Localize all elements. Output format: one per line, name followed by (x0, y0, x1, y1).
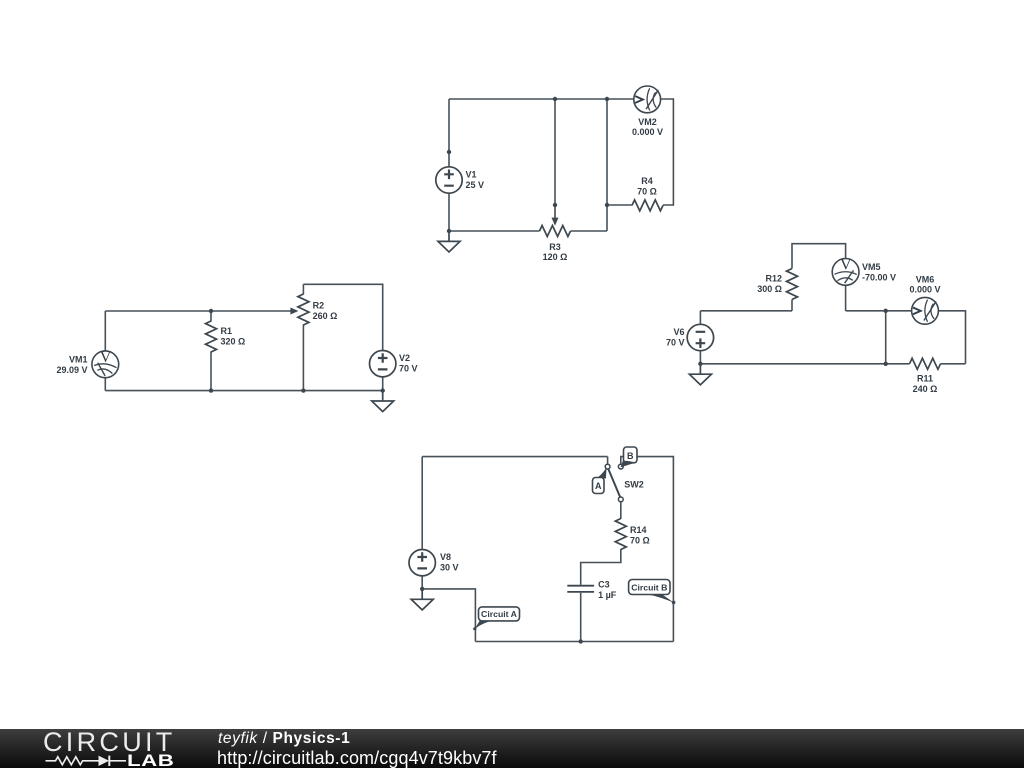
wire R14 to C3 (581, 549, 621, 585)
wire V6 top (699, 311, 701, 325)
resistor R1 (206, 321, 217, 352)
wire R1 top lead (210, 311, 212, 322)
svg-text:R1: R1 (221, 326, 233, 336)
junction R4 node (605, 203, 609, 207)
svg-text:320 Ω: 320 Ω (221, 336, 246, 346)
ground GND2 (372, 391, 394, 412)
svg-text:V2: V2 (399, 353, 410, 363)
svg-text:70 V: 70 V (666, 338, 685, 348)
svg-text:29.09 V: 29.09 V (56, 365, 87, 375)
resistor R2 (298, 294, 309, 325)
svg-text:0.000 V: 0.000 V (632, 127, 663, 137)
svg-text:70 V: 70 V (399, 364, 418, 374)
svg-text:0.000 V: 0.000 V (909, 285, 940, 295)
svg-text:R3: R3 (549, 242, 561, 252)
junction wiper net (209, 309, 213, 313)
svg-text:B: B (627, 451, 634, 461)
svg-text:V8: V8 (440, 552, 451, 562)
wire top net V1-VM2 (449, 98, 634, 100)
junction node top-1 (553, 97, 557, 101)
svg-text:70 Ω: 70 Ω (630, 535, 650, 545)
svg-text:70 Ω: 70 Ω (637, 186, 657, 196)
svg-text:Circuit B: Circuit B (631, 583, 667, 593)
wire V1 top (448, 99, 450, 167)
voltmeter VM6 (912, 297, 939, 324)
junction V1 feed (447, 150, 451, 154)
wire V8 bottom (421, 576, 423, 589)
wire bottom to R3 (449, 230, 540, 232)
svg-text:SW2: SW2 (624, 479, 644, 489)
svg-text:R12: R12 (765, 274, 782, 284)
junction R2 bottom (301, 388, 305, 392)
voltmeter VM2 (634, 86, 661, 113)
svg-text:260 Ω: 260 Ω (313, 311, 338, 321)
wire V8 to SW2 A (422, 456, 607, 458)
wire R2 top lead (302, 284, 304, 294)
svg-text:VM6: VM6 (916, 274, 935, 284)
wire VM5 bottom (845, 285, 847, 310)
wire V6 bottom (699, 351, 701, 364)
ground GND3 (689, 364, 711, 385)
voltmeter VM5 (832, 256, 859, 285)
voltage source V1 (436, 167, 462, 193)
voltage source V6 (687, 324, 713, 350)
svg-text:120 Ω: 120 Ω (543, 252, 568, 262)
wire V6 to R12 (700, 310, 792, 312)
wire R4 to VM2 (661, 99, 674, 205)
resistor R11 (910, 358, 941, 369)
footer title (218, 730, 350, 748)
ground GND1 (438, 231, 460, 252)
wire bottom net right (700, 363, 909, 365)
svg-text:C3: C3 (598, 580, 610, 590)
wire B to right side (621, 457, 674, 642)
capacitor C3 (567, 586, 594, 592)
svg-text:Circuit A: Circuit A (481, 609, 518, 619)
wire R1 bottom lead (210, 352, 212, 391)
annotation Circuit A (473, 607, 519, 630)
wire mid link (885, 311, 887, 364)
svg-text:-70.00 V: -70.00 V (862, 272, 896, 282)
resistor R4 (632, 200, 663, 211)
wire V1 bottom (448, 193, 450, 231)
wire SW2 pole to R14 (620, 502, 622, 519)
junction V1 bottom node (447, 229, 451, 233)
junction C3 bottom node (579, 639, 583, 643)
footer bar (0, 729, 1024, 768)
wire R2 top to V2 (303, 284, 382, 350)
voltage source V8 (409, 550, 435, 576)
svg-text:300 Ω: 300 Ω (757, 284, 782, 294)
wire V8 to bottom (422, 589, 475, 642)
resistor R3 (540, 226, 571, 237)
svg-text:V1: V1 (466, 169, 477, 179)
junction link bottom (884, 362, 888, 366)
svg-text:VM1: VM1 (69, 355, 88, 365)
CircuitLab logo (43, 727, 176, 758)
svg-text:25 V: 25 V (466, 180, 485, 190)
wire V8 top (421, 457, 423, 550)
wire pot wiper feed (554, 99, 556, 205)
svg-text:VM2: VM2 (638, 117, 657, 127)
svg-text:R4: R4 (641, 176, 653, 186)
svg-text:240 Ω: 240 Ω (913, 384, 938, 394)
junction wiper node (553, 203, 557, 207)
wire right branch (606, 99, 608, 231)
junction R1 bottom (209, 388, 213, 392)
wire A stub (607, 457, 609, 464)
voltmeter VM1 (92, 349, 119, 378)
node A tag (593, 467, 607, 493)
node B tag (621, 447, 638, 467)
wire R12 to VM5 (792, 244, 846, 269)
annotation Circuit B (629, 580, 676, 605)
svg-text:VM5: VM5 (862, 262, 881, 272)
potentiometer wiper arrow R3 (552, 205, 559, 226)
svg-text:V: V (840, 256, 852, 273)
resistor R14 (615, 519, 626, 550)
junction V2 bottom node (381, 388, 385, 392)
voltage source V2 (370, 351, 396, 377)
wire VM6 to R11 right (939, 311, 966, 364)
wire R11 right lead (941, 363, 966, 365)
wire R3 to node (571, 230, 608, 232)
wire R2 bottom lead (302, 325, 304, 391)
svg-text:1 µF: 1 µF (598, 590, 617, 600)
wire bottom net 4 (475, 641, 673, 643)
ground GND4 (411, 589, 433, 610)
svg-text:30 V: 30 V (440, 563, 459, 573)
svg-text:A: A (595, 481, 602, 491)
switch SW2 (605, 464, 623, 502)
wire C3 bottom (580, 593, 582, 642)
wire V2 bottom (382, 377, 384, 391)
wire VM1 bottom (104, 378, 106, 391)
svg-text:V6: V6 (673, 327, 684, 337)
junction link top (884, 309, 888, 313)
junction node top-2 (605, 97, 609, 101)
wire VM1 top (104, 311, 106, 351)
wire R12 bottom lead (791, 300, 793, 311)
svg-text:R14: R14 (630, 525, 647, 535)
wire bottom net (105, 390, 382, 392)
resistor R12 (787, 269, 798, 300)
junction V6 bottom node (698, 362, 702, 366)
wire VM5 to VM6 (846, 310, 912, 312)
wire R4 left lead (607, 204, 632, 206)
footer url (217, 748, 497, 769)
junction V8 bottom node (420, 587, 424, 591)
svg-text:R2: R2 (313, 300, 325, 310)
wire VM1 to R2 wiper (105, 310, 290, 312)
potentiometer wiper arrow R2 (290, 308, 298, 315)
svg-text:R11: R11 (917, 374, 933, 384)
